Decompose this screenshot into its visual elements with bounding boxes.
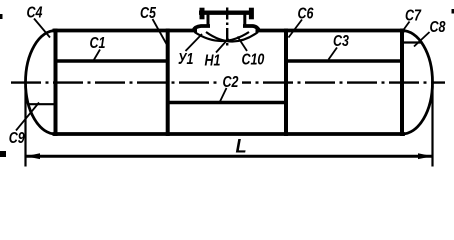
svg-text:C9: C9 (9, 130, 25, 148)
svg-text:C1: C1 (90, 35, 106, 53)
svg-text:C10: C10 (242, 51, 265, 69)
svg-text:C6: C6 (298, 5, 315, 23)
svg-text:C8: C8 (430, 19, 446, 37)
svg-text:C3: C3 (333, 33, 349, 51)
svg-text:C7: C7 (405, 7, 422, 25)
svg-text:Н1: Н1 (205, 52, 221, 70)
svg-text:C2: C2 (223, 74, 239, 92)
svg-text:C5: C5 (140, 5, 157, 23)
svg-text:C4: C4 (27, 4, 43, 22)
svg-text:У1: У1 (178, 51, 193, 69)
svg-text:L: L (236, 135, 247, 156)
